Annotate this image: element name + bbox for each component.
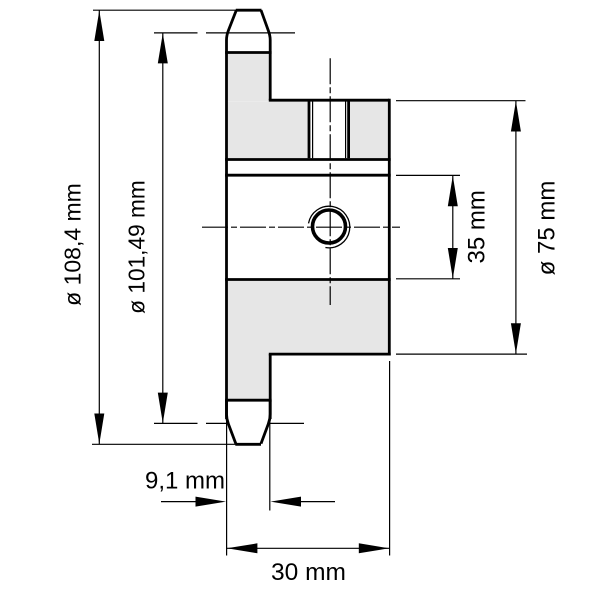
dimension ø108.4: top extension line (93, 9, 237, 11)
dimension 35: top extension line (396, 174, 460, 176)
plate right edge upper (269, 53, 272, 101)
dimension ø101.49: dimension line (162, 33, 164, 424)
dimension ø108.4: dimension line (98, 10, 100, 444)
svg-text:9,1 mm: 9,1 mm (145, 467, 225, 494)
dimension 9.1: right arrow tail (297, 501, 335, 503)
dimension ø75: bottom arrow (511, 323, 521, 354)
dimension 35: dimension line (452, 175, 454, 278)
set screw hole thin left line (312, 102, 314, 159)
hub right edge (388, 99, 391, 356)
svg-text:35 mm: 35 mm (464, 190, 491, 263)
tooth bottom root line (225, 399, 272, 402)
svg-text:ø 75 mm: ø 75 mm (534, 181, 561, 276)
sprocket body grey fill: lower band of hub (225, 281, 391, 354)
tooth top outline (227, 10, 237, 52)
dimension 30: right arrow (359, 543, 390, 553)
dimension 35: bottom extension line (396, 278, 460, 280)
extension line hub right edge (30) (389, 361, 391, 556)
dimension ø75: top extension line (396, 100, 526, 102)
dimension 30: dimension line (227, 547, 390, 549)
dimension 9.1: left arrow (196, 497, 227, 507)
dimension ø108.4: bottom arrow (94, 414, 104, 445)
svg-text:ø 108,4 mm: ø 108,4 mm (60, 183, 86, 306)
extension line left plate edge (9.1 and 30) (226, 412, 228, 556)
plate right edge lower (269, 354, 272, 419)
svg-text:30 mm: 30 mm (271, 559, 346, 586)
sprocket body grey fill: hub collar band (225, 101, 391, 160)
set screw hole thin right line (345, 102, 347, 159)
dimension 9.1: left arrow line (161, 501, 200, 503)
sprocket body grey fill: plate column below hub (225, 354, 272, 401)
dimension 35: top arrow (448, 176, 458, 207)
dimension 9.1: right arrow (271, 497, 302, 507)
dimension ø75: dimension line (515, 101, 517, 354)
dimension ø75: top arrow (511, 101, 521, 132)
dimension ø108.4: bottom extension line (92, 443, 236, 445)
sprocket body grey fill: plate column above hub (225, 54, 272, 102)
dimension ø101.49: bottom extension line (154, 422, 304, 424)
dimension ø101.49: top arrow (158, 33, 168, 63)
plate left edge (225, 53, 228, 420)
tooth bottom outline (227, 400, 236, 443)
vertical centerline (329, 58, 331, 305)
hub top edge (269, 99, 390, 102)
bore hole circle (313, 210, 346, 243)
horizontal centerline (202, 226, 400, 228)
tooth top root line (225, 51, 272, 54)
bore band bottom line (225, 278, 391, 281)
bore hole thread arc (309, 206, 350, 248)
dimension ø108.4: top arrow (94, 11, 104, 42)
dimension ø101.49: top extension line (154, 32, 295, 34)
svg-text:ø 101,49 mm: ø 101,49 mm (123, 180, 149, 314)
hub slit top line (225, 158, 391, 161)
set screw hole thick right line (347, 102, 350, 159)
bore band top line (225, 174, 391, 177)
dimension 30: left arrow (227, 543, 258, 553)
extension line right plate edge (9.1) (269, 412, 271, 511)
set screw hole white interior (309, 102, 349, 159)
dimension ø101.49: bottom arrow (158, 393, 168, 424)
hub bottom edge (269, 353, 391, 356)
set screw hole thick left line (308, 102, 311, 159)
dimension 35: bottom arrow (448, 248, 458, 279)
dimension ø75: bottom extension line (396, 353, 527, 355)
